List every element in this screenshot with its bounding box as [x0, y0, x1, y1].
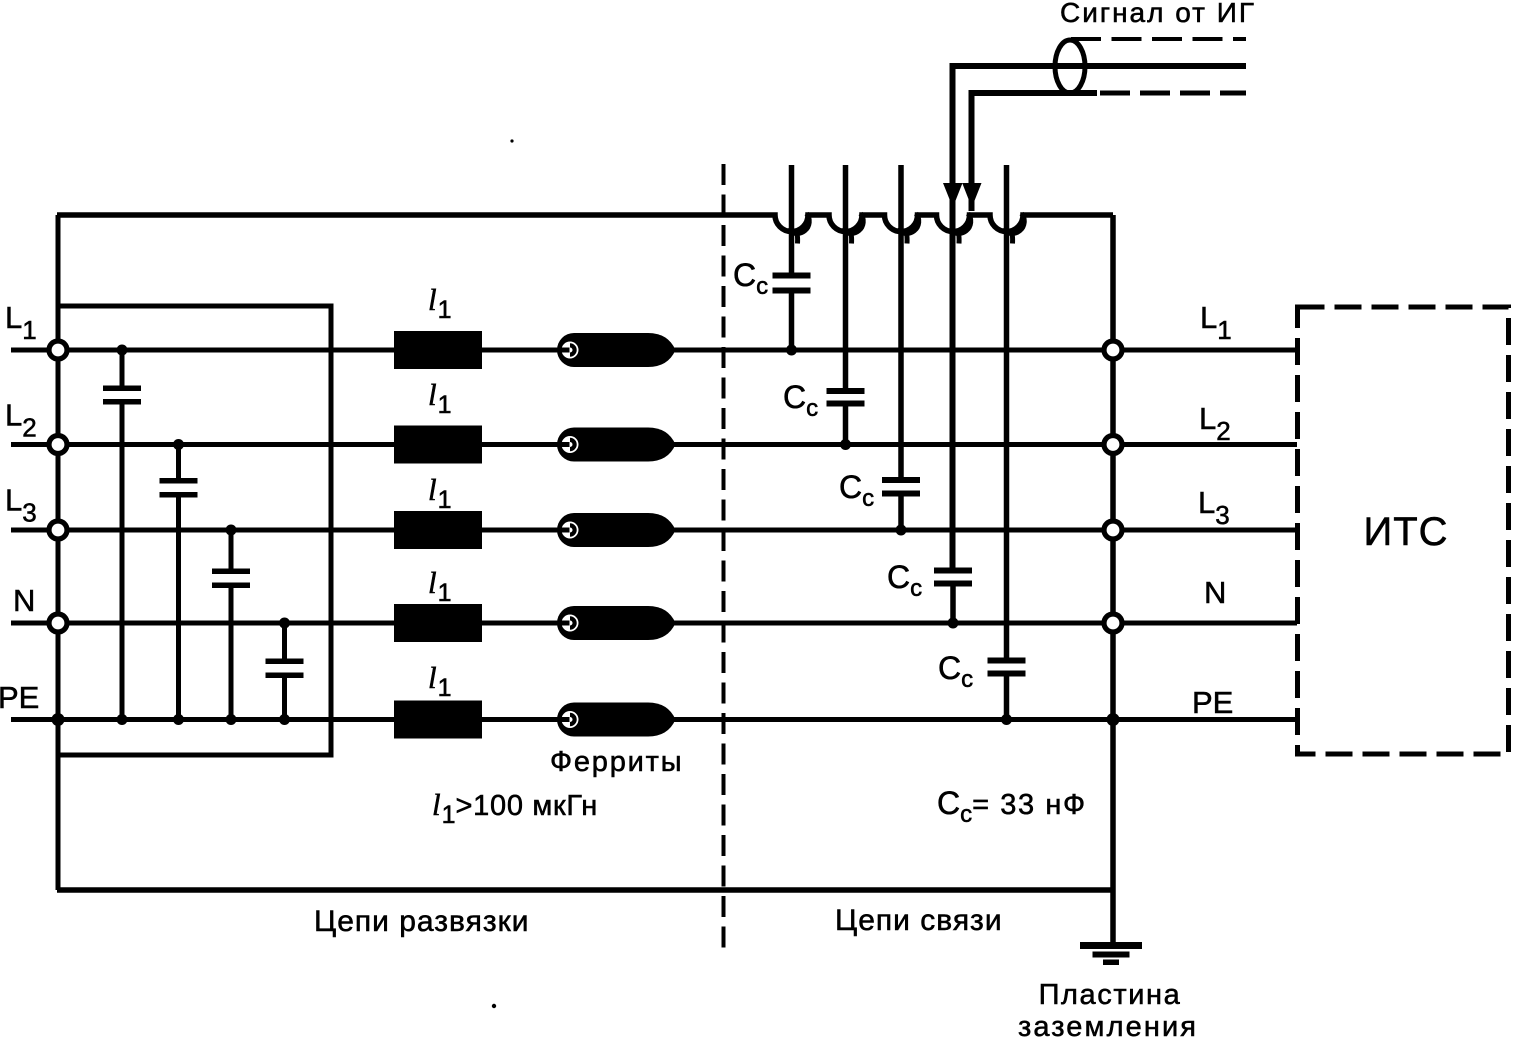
junction node	[117, 345, 128, 356]
scan speck	[492, 1004, 496, 1008]
svg-text:PE: PE	[1192, 685, 1233, 720]
generator coax: shield wire down to bus	[972, 93, 1098, 211]
junction node	[226, 525, 237, 536]
svg-text:PE: PE	[0, 680, 39, 715]
terminal L2 left	[49, 436, 67, 454]
choke winding arc at crossing 4	[949, 214, 971, 234]
junction node	[1001, 714, 1012, 725]
junction node	[173, 439, 184, 450]
junction node	[279, 618, 290, 629]
wire N line	[11, 621, 1297, 626]
junction node	[173, 714, 184, 725]
capacitor C1 inside decoupling box	[120, 350, 125, 386]
generator coax: lower shield dashed line	[1100, 91, 1246, 96]
inductor l1 on L1 line	[394, 331, 482, 369]
wire: bottom bus	[57, 887, 1113, 893]
svg-text:Сигнал от ИГ: Сигнал от ИГ	[1060, 0, 1256, 28]
wire: right vertical bus to ground	[1110, 215, 1116, 945]
junction node	[786, 345, 797, 356]
terminal N right	[1104, 614, 1122, 632]
ferrite bead on L2 line	[557, 428, 676, 462]
dashed divider between decoupling and coupling sections	[722, 164, 726, 948]
capacitor Cc #1 coupling branch	[789, 165, 795, 273]
capacitor C2 inside decoupling box	[176, 445, 181, 479]
svg-text:N: N	[1204, 575, 1226, 610]
generator coax: centre conductor wire down to N coupling branch	[953, 66, 1247, 568]
inductor l1 on L3 line	[394, 511, 482, 549]
junction node	[948, 618, 959, 629]
EUT box (ИТС) dashed	[1298, 307, 1509, 754]
ferrite bead on N line	[557, 606, 676, 640]
generator coax: top shield dashed line	[1071, 37, 1246, 41]
capacitor C4 inside decoupling box	[282, 623, 287, 659]
wire: left vertical bus	[56, 215, 61, 890]
wire: top decoupling bus with five choke humps	[57, 215, 1113, 232]
capacitor Cc #3 coupling branch	[898, 165, 904, 477]
ground plate symbol	[1080, 942, 1142, 965]
scan speck	[510, 139, 513, 142]
svg-text:Ферриты: Ферриты	[550, 746, 683, 778]
capacitor Cc #2 coupling branch	[843, 165, 849, 388]
terminal L1 right	[1104, 341, 1122, 359]
capacitor Cc #4 coupling branch	[950, 587, 956, 624]
inductor l1 on N line	[394, 604, 482, 642]
junction node PE left	[52, 713, 65, 726]
choke winding arc at crossing 5	[1003, 214, 1025, 234]
junction node PE right	[1107, 713, 1120, 726]
decoupling network box	[58, 306, 331, 755]
terminal L3 right	[1104, 521, 1122, 539]
arrow: injection into bus	[962, 183, 981, 208]
choke winding arc at crossing 2	[842, 214, 864, 234]
terminal L3 left	[49, 521, 67, 539]
terminal L1 left	[49, 341, 67, 359]
svg-text:заземления: заземления	[1018, 1011, 1198, 1037]
inductor l1 on L2 line	[394, 426, 482, 464]
terminal L2 right	[1104, 436, 1122, 454]
svg-text:Цепи развязки: Цепи развязки	[314, 905, 530, 938]
ferrite bead on L3 line	[557, 513, 676, 547]
wire PE line	[11, 717, 1297, 722]
ferrite bead on PE line	[557, 703, 676, 737]
wire L1 line	[11, 348, 1297, 353]
svg-text:Цепи связи: Цепи связи	[835, 904, 1003, 937]
capacitor Cc #5 coupling branch	[1004, 165, 1010, 658]
junction node	[279, 714, 290, 725]
arrow: injection into N winding	[943, 183, 963, 208]
svg-text:ИТС: ИТС	[1363, 510, 1448, 554]
svg-text:Пластина: Пластина	[1039, 979, 1182, 1011]
wire L3 line	[11, 528, 1297, 533]
junction node	[117, 714, 128, 725]
inductor l1 on PE line	[394, 701, 482, 739]
junction node	[840, 439, 851, 450]
ferrite bead on L1 line	[557, 333, 676, 367]
wire L2 line	[11, 442, 1297, 447]
svg-text:N: N	[13, 583, 35, 618]
terminal N left	[49, 614, 67, 632]
junction node	[896, 525, 907, 536]
capacitor C3 inside decoupling box	[229, 530, 234, 569]
choke winding arc at crossing 1	[788, 214, 810, 234]
junction node	[226, 714, 237, 725]
generator coax: cable ellipse	[1055, 40, 1085, 93]
choke winding arc at crossing 3	[897, 214, 919, 234]
